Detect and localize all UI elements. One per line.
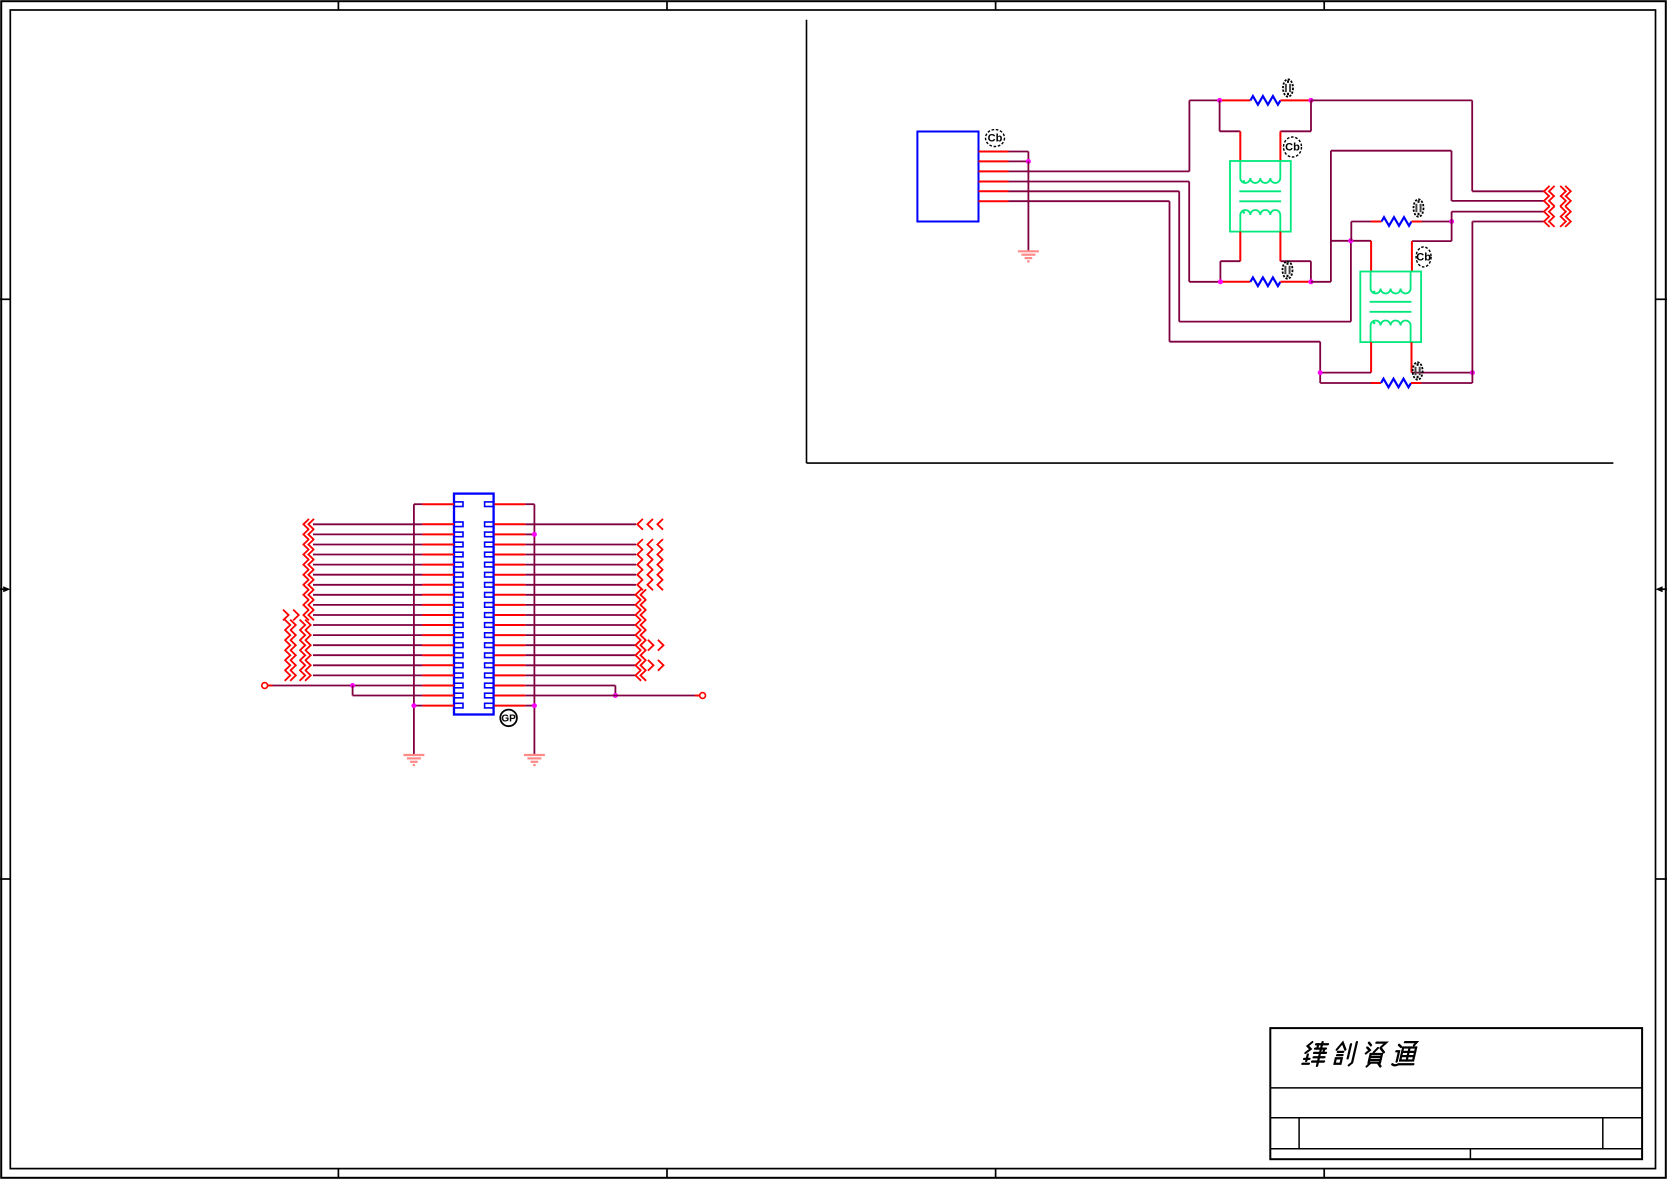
wire pin5 route to node A <box>1009 190 1180 192</box>
resistor R4 <box>1320 382 1371 384</box>
node junction pin1/pin2 <box>1026 159 1031 164</box>
label R4 <box>1413 362 1423 379</box>
wire R3 to T2 primary right <box>1451 222 1453 242</box>
row0 wires <box>414 503 423 505</box>
resistor R1 <box>1220 99 1251 101</box>
wire row695 right to terminal <box>525 695 615 697</box>
node bottom-left junction <box>350 683 355 688</box>
wire R2 right to output line2 <box>1311 281 1331 283</box>
wire to T2 primary left (node A) <box>1331 240 1371 242</box>
wire output line2 <box>1452 200 1545 202</box>
node R4 left <box>1318 370 1323 375</box>
wire branch to row695 left <box>352 686 354 696</box>
wire row705 right <box>525 705 534 707</box>
node R4 right <box>1470 370 1475 375</box>
IC U1 (blue box) <box>917 132 978 222</box>
connector J1 pin boxes <box>454 502 494 708</box>
wire row705 left <box>414 705 423 707</box>
wire T2 sec right to node <box>1412 372 1473 374</box>
border mid arrow left <box>0 588 6 590</box>
wire pin4 route to R2 left <box>1009 181 1190 183</box>
resistor R2 <box>1220 281 1250 283</box>
resistor R3 <box>1350 222 1352 241</box>
wire junction to ground <box>1027 161 1029 251</box>
title block dividers <box>1270 1087 1642 1089</box>
U1 pin stubs <box>979 152 1009 202</box>
svg-text:Cb: Cb <box>1285 142 1300 154</box>
company logo text <box>1302 1042 1419 1066</box>
left-side data wires <box>313 524 422 675</box>
node R3 right <box>1449 219 1454 224</box>
pin T2 secondary left <box>1370 342 1372 373</box>
wire output line3 <box>1451 212 1453 222</box>
pin T1 secondary right <box>1279 232 1281 262</box>
off-page marks right side <box>636 519 664 681</box>
node R1 left <box>1217 98 1222 103</box>
wire bottom left row <box>268 685 273 687</box>
connector J1 body <box>454 494 494 715</box>
label T1 <box>1284 137 1302 157</box>
off-page marks left side <box>283 519 314 681</box>
border tick marks bottom <box>337 1169 339 1178</box>
svg-text:Cb: Cb <box>1416 252 1431 264</box>
wire output line4 <box>1471 222 1473 384</box>
title block outer <box>1270 1028 1642 1159</box>
off-page connector marks (right outputs) <box>1544 186 1571 227</box>
wire pin6 route to R4 row <box>1009 200 1170 202</box>
wire T2 sec left to node <box>1320 372 1371 374</box>
wire T1 sec right step <box>1280 260 1311 262</box>
border tick marks top <box>337 1 339 10</box>
pin T2 secondary right <box>1411 342 1413 373</box>
node row705 left rail <box>411 703 416 708</box>
node R1 right <box>1309 98 1314 103</box>
label R2 <box>1283 261 1293 278</box>
terminal circle right <box>700 693 706 699</box>
ground GND2 <box>403 755 424 765</box>
ground GND3 <box>524 755 545 765</box>
svg-text:Cb: Cb <box>988 133 1003 145</box>
pin T1 secondary left <box>1239 232 1241 262</box>
wire pin1 to junction <box>1009 151 1029 153</box>
pin T2 primary right <box>1411 241 1413 271</box>
J1 red pin stubs <box>422 504 525 705</box>
border mid arrow right <box>1661 588 1667 590</box>
label T2 <box>1416 247 1431 267</box>
svg-text:GP: GP <box>501 713 516 724</box>
border tick marks left <box>0 298 10 300</box>
label CN? for U1 <box>986 130 1005 147</box>
right ground rail <box>533 504 535 755</box>
node R2 left <box>1218 279 1223 284</box>
wire pin2 to junction <box>1009 160 1029 162</box>
pin T1 primary left <box>1239 131 1241 161</box>
transformer T2 <box>1360 272 1421 343</box>
node bottom-right junction <box>613 693 618 698</box>
wire R1 left step to T1 <box>1219 100 1221 131</box>
border tick marks right <box>1656 298 1667 300</box>
left ground rail <box>413 504 415 755</box>
label R3 <box>1414 199 1424 216</box>
right-side data wires <box>525 524 636 675</box>
node A junction <box>1348 238 1353 243</box>
wire R1 right step to T1 <box>1310 100 1312 131</box>
pin T1 primary right <box>1279 131 1281 161</box>
terminal circle left <box>262 683 268 689</box>
node row534 right rail <box>532 532 537 537</box>
node R2 right <box>1308 279 1313 284</box>
sub-circuit partition line bottom <box>807 462 1614 464</box>
wire row685 right to step <box>525 685 615 687</box>
node row705 right rail <box>532 703 537 708</box>
wire output line1 <box>1311 99 1472 101</box>
ground GND1 <box>1018 251 1039 261</box>
transformer T1 <box>1230 161 1291 232</box>
wire pin3 up to R1 row <box>1009 170 1190 172</box>
label R1 <box>1283 79 1293 96</box>
label GP for J1 <box>500 710 517 727</box>
sub-circuit partition line left <box>806 20 808 463</box>
wire T1 sec left step <box>1220 260 1240 262</box>
pin T2 primary left <box>1370 241 1372 272</box>
